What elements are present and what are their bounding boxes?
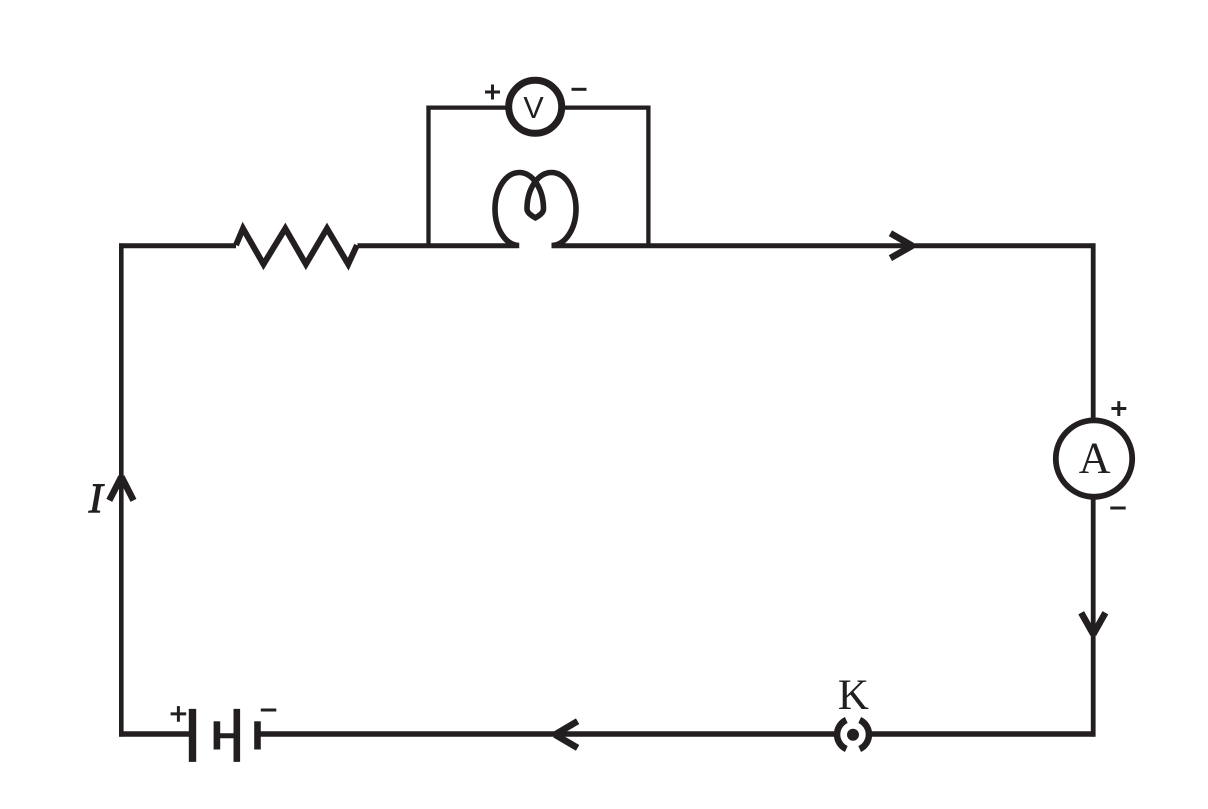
wire: right vertical side, ammeter to bottom-right corner (1091, 497, 1096, 737)
wire: top side, between resistor and coil (358, 243, 518, 248)
battery cell plate: long positive plate 2 (234, 709, 241, 762)
resistor R (zigzag) (236, 229, 357, 265)
battery cell plate: short negative plate 1 (214, 721, 221, 749)
plus sign at battery (171, 706, 187, 722)
wire: voltmeter branch top left segment (426, 105, 510, 109)
minus sign at voltmeter (572, 88, 587, 91)
coil XY (two-loop heating coil) (495, 173, 576, 246)
minus sign at ammeter (1110, 507, 1125, 510)
wire: battery inter-cell connector (217, 733, 237, 738)
minus sign at battery (261, 709, 277, 712)
wire: voltmeter branch right vertical (646, 106, 650, 246)
wire: bottom side, battery to key (258, 731, 836, 736)
arrow: current direction right on top wire (890, 233, 912, 258)
plus sign at voltmeter (485, 85, 500, 100)
wire: bottom side, key to bottom-right corner (872, 731, 1096, 736)
svg-text:A: A (1079, 434, 1111, 483)
wire: voltmeter branch left vertical (426, 106, 430, 246)
svg-text:K: K (838, 672, 869, 719)
plug key dot (847, 729, 859, 741)
battery cell plate: long positive plate 1 (189, 709, 196, 762)
plug key left contact arc (837, 720, 846, 749)
svg-text:I: I (88, 477, 105, 523)
arrow: current direction up on left wire (109, 477, 133, 501)
arrow: current direction down on right wire (1081, 613, 1105, 634)
wire: top side, coil to top-right corner (553, 243, 1095, 248)
plug key right contact arc (860, 720, 869, 749)
battery cell plate: short negative plate 2 (254, 721, 261, 749)
ammeter A (circle) (1056, 420, 1132, 496)
wire: top side, left segment before resistor (119, 243, 236, 248)
arrow: current direction left on bottom wire (555, 721, 578, 748)
wire: right vertical side, top segment to ammeter (1091, 243, 1096, 421)
plus sign at ammeter (1111, 401, 1126, 416)
voltmeter V (circle) (509, 80, 562, 133)
wire: voltmeter branch top right segment (561, 105, 651, 109)
wire: left vertical side (119, 243, 124, 736)
svg-text:V: V (523, 91, 544, 125)
wire: bottom side, left corner to battery (119, 731, 189, 736)
